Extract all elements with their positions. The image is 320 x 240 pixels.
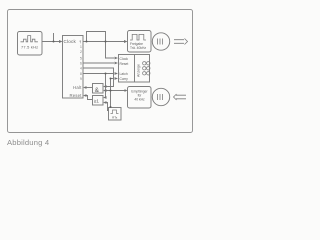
- figure frame: [8, 10, 193, 133]
- junction latch branch: [105, 73, 107, 75]
- receive transducer circle: [152, 88, 169, 105]
- Freigabe Traeger 40kHz box: [128, 31, 152, 53]
- arrow into display Latch: [115, 72, 119, 75]
- receive transducer bars: [158, 94, 163, 100]
- display divider: [134, 55, 136, 83]
- arrow into display Reset: [115, 62, 119, 65]
- arrow into AND top input: [103, 85, 107, 88]
- arrow into display Clock: [115, 57, 119, 60]
- svg-text:Clock: Clock: [64, 39, 77, 44]
- wire OR bottom input to pulse box: [106, 103, 109, 111]
- labels: [7, 39, 148, 147]
- svg-text:77.5 kHz: 77.5 kHz: [21, 45, 38, 50]
- sound double arrow out: [174, 39, 188, 45]
- pulse glyph: [111, 110, 119, 114]
- junction net y90 right: [110, 90, 112, 92]
- transmit transducer bars: [158, 39, 163, 45]
- svg-text:Anzeige: Anzeige: [137, 64, 141, 77]
- arrowheads: [59, 40, 128, 104]
- svg-text:Reset: Reset: [70, 93, 83, 98]
- svg-text:Clock: Clock: [120, 57, 129, 61]
- svg-text:¶: ¶: [80, 40, 82, 44]
- svg-text:40 kHz: 40 kHz: [134, 98, 145, 102]
- oscillator OSC 77.5 kHz box: [18, 32, 43, 56]
- clock divider box: [63, 36, 84, 99]
- pulse generator box: [109, 108, 122, 121]
- svg-text:≥1: ≥1: [94, 99, 100, 104]
- svg-text:Latch: Latch: [120, 72, 128, 76]
- junction at oscillator wire stub: [53, 41, 55, 43]
- transmit transducer circle: [152, 33, 169, 50]
- svg-text:6: 6: [80, 62, 82, 66]
- arrow into Halt: [83, 86, 87, 89]
- svg-text:8: 8: [80, 72, 82, 76]
- Anzeige display box: [119, 55, 150, 83]
- svg-text:Abbildung 4: Abbildung 4: [7, 138, 49, 147]
- junction carry branch: [110, 78, 112, 80]
- Freigabe waveform glyph: [130, 34, 146, 40]
- svg-text:4: 4: [80, 67, 82, 71]
- arrow into OR top input: [103, 96, 107, 99]
- arrow into clock input: [59, 40, 63, 43]
- wire net y90 to Empfaenger: [106, 90, 125, 92]
- wire clock pin1 to Freigabe box: [83, 41, 124, 43]
- svg-text:5: 5: [80, 57, 82, 61]
- svg-text:&: &: [95, 87, 100, 94]
- wire OR output to Reset jog: [86, 96, 92, 100]
- AND gate box: [93, 84, 104, 94]
- svg-text:2: 2: [80, 50, 82, 54]
- junction pulse box top: [110, 106, 112, 108]
- arrow into Reset: [83, 94, 87, 97]
- wire latch branch down: [105, 74, 108, 98]
- sound double arrow in: [174, 94, 187, 100]
- junction rail crossing: [105, 41, 107, 43]
- svg-text:Carry: Carry: [120, 77, 129, 81]
- svg-text:Reset: Reset: [120, 62, 129, 66]
- display lamp circles: [143, 62, 146, 65]
- wire AND output to Halt: [86, 87, 92, 89]
- OR gate box: [93, 96, 104, 106]
- arrow into display Carry: [115, 77, 119, 80]
- arrow into Freigabe: [124, 40, 128, 43]
- svg-text:RTs: RTs: [112, 116, 118, 120]
- svg-text:Trä. 40kHz: Trä. 40kHz: [130, 46, 146, 50]
- junction dots: [53, 41, 112, 109]
- wire oscillator to clock: [42, 41, 59, 43]
- wire clock to display Reset: [83, 62, 114, 64]
- svg-text:1: 1: [80, 45, 82, 49]
- svg-text:Halt: Halt: [73, 85, 82, 90]
- wire branch up-over rail: [87, 32, 115, 59]
- oscillator waveform glyph: [21, 36, 38, 42]
- Empfaenger box: [128, 87, 152, 109]
- wire clock to display Latch: [83, 73, 114, 75]
- wire clock tap to AND gate via x113: [83, 68, 114, 87]
- wire display Carry down rail: [111, 79, 115, 108]
- stub wire above oscillator wire: [53, 33, 55, 42]
- arrow into OR bottom input: [103, 101, 107, 104]
- arrow into Empfaenger: [125, 89, 128, 92]
- junction net y90 left: [105, 90, 107, 92]
- junction clock pin1 branch: [86, 41, 88, 43]
- arrow into AND bottom input: [103, 89, 107, 92]
- svg-text:9: 9: [80, 77, 82, 81]
